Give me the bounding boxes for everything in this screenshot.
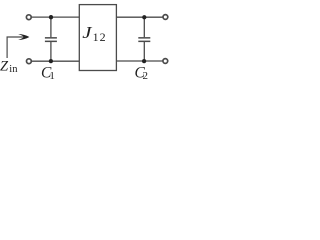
svg-text:1: 1 xyxy=(49,70,55,82)
svg-text:Z: Z xyxy=(0,59,9,75)
svg-text:12: 12 xyxy=(93,30,107,44)
svg-text:2: 2 xyxy=(143,70,149,82)
svg-text:in: in xyxy=(9,64,18,75)
